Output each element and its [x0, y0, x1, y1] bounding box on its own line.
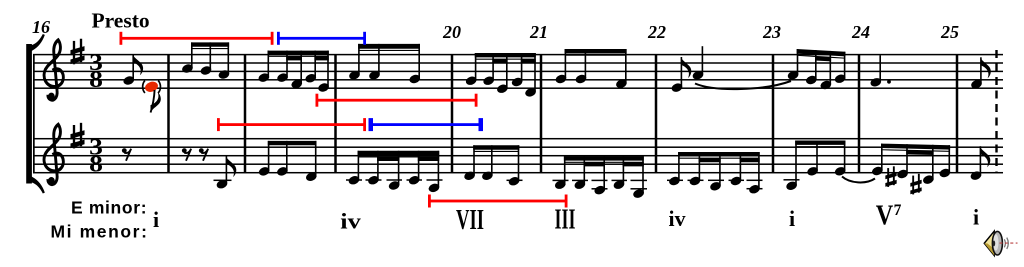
system bracket [26, 35, 44, 194]
beamed notes m17 top (3 eighths) [181, 42, 231, 80]
speaker icon [984, 231, 1017, 255]
ledger m20 bottom [507, 180, 523, 182]
svg-text:Presto: Presto [92, 9, 150, 33]
beamed notes m19 top (3 eighths) [348, 44, 421, 85]
svg-text:VII: VII [456, 205, 484, 236]
ledger m23 bottom [784, 179, 800, 181]
barline after measure 24 [956, 55, 959, 173]
svg-text:E minor:: E minor: [71, 198, 147, 218]
beamed notes m23 bottom (3 eighths) [785, 141, 847, 192]
svg-text:24: 24 [851, 22, 870, 42]
svg-text:8: 8 [89, 151, 103, 176]
svg-text:i: i [153, 207, 159, 232]
barline after measure 22 [772, 55, 775, 173]
eighth rest m17 bottom 2 [199, 148, 208, 160]
final dashed barline [995, 50, 997, 173]
beamed notes m18 bottom (3 eighths) [258, 141, 318, 183]
svg-text:III: III [555, 205, 576, 236]
measure number 24 [851, 22, 870, 42]
note m22 top 2 (quarter) [691, 46, 704, 81]
sharp accidental m24 bottom (before note 3) [910, 174, 921, 195]
eighth rest m17 bottom 1 [182, 148, 191, 160]
beamed notes m20 bottom (3 eighths) [463, 145, 521, 187]
label E minor: [71, 198, 147, 218]
sharp accidental m24 bottom (before note 2) [885, 166, 896, 187]
system start barline [33, 54, 35, 173]
measure number 22 [647, 22, 666, 42]
svg-text:8: 8 [89, 67, 103, 92]
red analysis bracket middle (under top staff) [316, 94, 478, 107]
tie m22-m23 top [695, 81, 791, 89]
red analysis bracket labels (VII-III) [428, 195, 568, 208]
red analysis bracket top (m16-m17) [120, 32, 274, 45]
svg-text:Mi menor:: Mi menor: [51, 222, 149, 242]
svg-text:7: 7 [894, 202, 902, 219]
roman numeral i (m23) [789, 206, 795, 231]
measure number 23 [762, 22, 781, 42]
barline after measure 23 [858, 55, 861, 173]
red analysis bracket lower (above bottom staff) [217, 118, 366, 131]
ledger lines m19 bottom [346, 179, 443, 181]
bottom staff [33, 138, 1003, 174]
time signature 3/8 bottom staff [89, 135, 103, 177]
svg-text:21: 21 [529, 22, 548, 42]
blue analysis bracket top (m18) [277, 32, 366, 45]
barline after measure 19 [451, 55, 454, 173]
measure number 25 [940, 22, 959, 42]
top staff [33, 54, 1003, 89]
barline after measure 21 [655, 55, 658, 173]
ledger lines m21 bottom [553, 180, 648, 190]
beamed notes m18 top (5 notes) [257, 51, 330, 94]
beamed notes m24 bottom (4 notes) [871, 144, 952, 186]
note m25 top (eighth w/ flag) [970, 57, 991, 90]
note m25 bottom (eighth w/ flag) [969, 146, 990, 181]
eighth rest m16 bottom [122, 148, 131, 160]
barline after measure 16 [167, 55, 170, 173]
svg-text:i: i [789, 206, 795, 231]
note m22 top 1 (eighth w/ flag) [670, 57, 691, 93]
roman numeral V7 (m24) [876, 201, 902, 232]
roman numeral VII (m20) [456, 205, 484, 236]
svg-text:iv: iv [669, 206, 686, 231]
barline after measure 18 [334, 55, 337, 173]
measure number 20 [442, 22, 461, 42]
beamed notes m23 top (4 notes) [787, 49, 847, 91]
roman numeral i (m16) [153, 207, 159, 232]
measure number 16 [32, 17, 50, 37]
svg-text:22: 22 [647, 22, 666, 42]
note m16 top 2 (red highlighted eighth E4 in parens, stem down w/ flag) [143, 80, 161, 113]
svg-text:iv: iv [340, 209, 361, 234]
blue analysis bracket lower [369, 118, 484, 131]
label Mi menor: [51, 222, 149, 242]
ledger lines m22 bottom [667, 180, 763, 190]
beamed notes m19 bottom (5 notes) [347, 151, 440, 194]
svg-text:V: V [876, 201, 894, 232]
barline after measure 20 [540, 55, 543, 173]
treble clef bottom staff [44, 124, 63, 185]
svg-text:i: i [973, 205, 979, 230]
roman numeral III (m21) [555, 205, 576, 236]
barline after measure 17 [244, 55, 247, 173]
key signature sharp bottom staff [70, 123, 84, 149]
roman numeral i (m25) [973, 205, 979, 230]
roman numeral iv (m19) [340, 209, 361, 234]
treble clef top staff [44, 40, 63, 101]
roman numeral iv (m22) [669, 206, 686, 231]
tie m23-m24 bottom [842, 177, 875, 183]
beamed notes m21 bottom (5 notes) [554, 156, 645, 199]
svg-text:16: 16 [32, 17, 50, 37]
measure number 21 [529, 22, 548, 42]
tempo text Presto [92, 9, 150, 33]
time signature 3/8 top staff [89, 50, 103, 92]
note m24 top (dotted quarter) [869, 55, 891, 88]
beamed notes m20 top (5 notes) [465, 53, 537, 98]
note m16 top 1 (eighth, stem up w/ flag) [122, 54, 143, 86]
key signature sharp top staff [70, 39, 84, 65]
beamed notes m21 top (3 eighths) [554, 49, 627, 89]
note m17 bottom (eighth below staff w/ flag) [214, 156, 237, 190]
beamed notes m22 bottom (5 notes) [668, 152, 761, 195]
svg-text:25: 25 [940, 22, 959, 42]
svg-text:20: 20 [442, 22, 461, 42]
svg-text:23: 23 [762, 22, 781, 42]
